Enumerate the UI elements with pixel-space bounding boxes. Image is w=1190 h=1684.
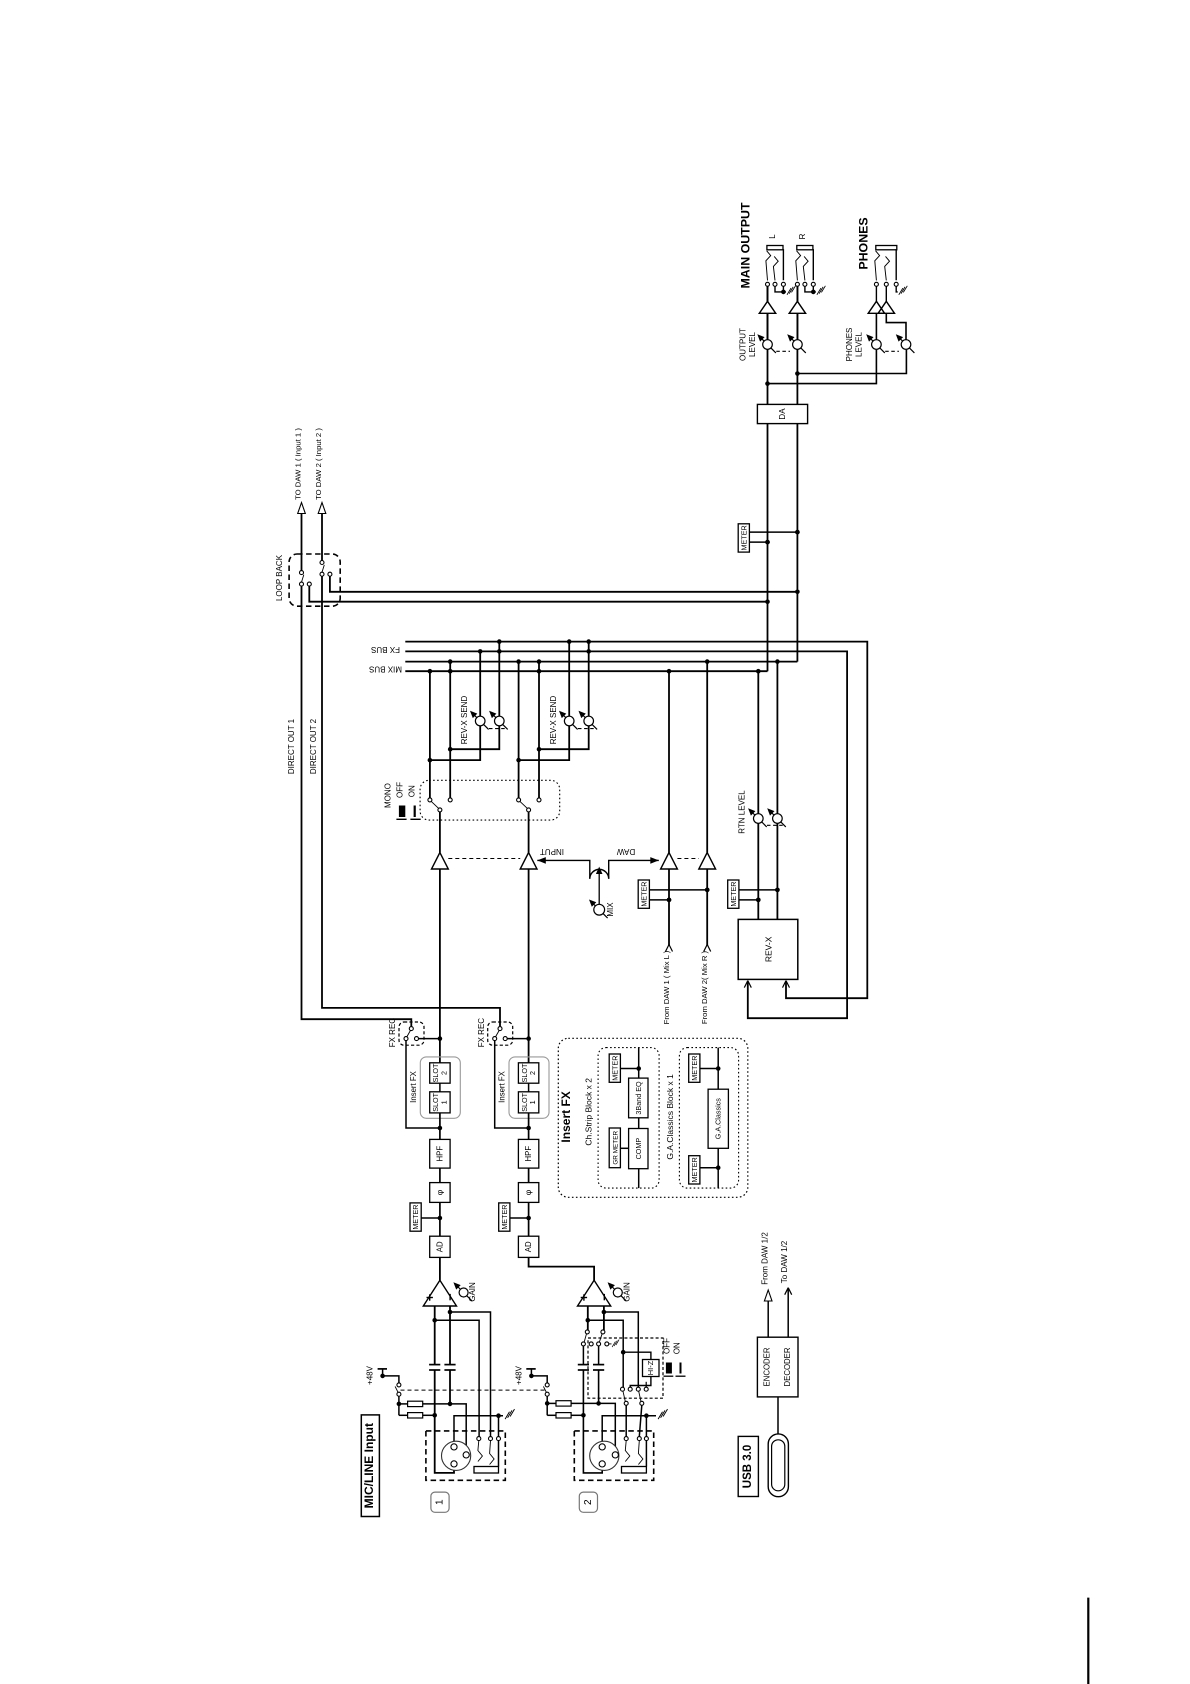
wire ch2 + cap line (582, 1346, 584, 1364)
switch +48V ch2 (531, 1376, 547, 1383)
jack ring spring (803, 256, 808, 280)
jack sleeve wire (812, 250, 814, 280)
wire ch2 + cap to xlr pin3 route (583, 1370, 602, 1473)
wire ch2 sleeve drop (645, 1416, 647, 1437)
jack sleeve wire (895, 250, 898, 280)
wire ch2 tip to jack (625, 1405, 627, 1436)
wire MIX bus R line (top) (405, 661, 797, 663)
block phase ch1 (430, 1183, 450, 1203)
wire FX REC ch2 common to pre-insert (495, 1041, 529, 1128)
wire ch2 slot1 to hpf (528, 1113, 530, 1140)
svg-text:FX REC: FX REC (477, 1018, 486, 1048)
op-amp GAIN ch2 (578, 1280, 611, 1306)
op-amp phones R (878, 301, 894, 313)
label MIC/LINE Input (361, 1415, 379, 1517)
svg-text:FX BUS: FX BUS (371, 645, 400, 654)
svg-text:TO DAW 1 ( Input 1 ): TO DAW 1 ( Input 1 ) (293, 428, 302, 500)
wire ch1 tip tap (435, 1320, 479, 1436)
op-amp main L (759, 301, 775, 313)
meter REV-X returns (739, 889, 778, 891)
svg-text:LEVEL: LEVEL (855, 331, 864, 356)
svg-text:USB 3.0: USB 3.0 (742, 1445, 754, 1488)
switch HI-Z + line (585, 1330, 589, 1334)
block REV-X (738, 919, 798, 979)
svg-text:1: 1 (435, 1499, 446, 1505)
wire gang dashed RTN LEVEL (767, 824, 785, 826)
wire ch2 ring to jack (639, 1405, 642, 1436)
wire ch1 + line to cap (434, 1306, 436, 1364)
footer rule (1087, 1598, 1089, 1684)
wire TRS ch1 sleeve (498, 1441, 500, 1467)
wire DAW R to mix bus (706, 662, 708, 853)
resistor ch2 phantom upper (547, 1402, 556, 1404)
wire main R knob to amp (796, 313, 798, 340)
knob GAIN ch1 (457, 1286, 472, 1301)
jack ring spring (885, 256, 890, 280)
svg-text:METER: METER (729, 882, 738, 907)
wire HI-Z output (630, 1377, 651, 1388)
svg-text:INPUT: INPUT (540, 847, 564, 856)
wire phones knob a to amp (875, 314, 877, 340)
box HI-Z dashed (588, 1338, 663, 1398)
bar TRS ch2 sleeve (622, 1467, 647, 1474)
wire ch2 ground rail (602, 1416, 656, 1444)
wire ch1 REV-X send R branch (450, 642, 499, 750)
wire chstrip chain (638, 1048, 640, 1079)
ground HI-Z off contact (609, 1343, 612, 1345)
meter main outputs (749, 531, 797, 533)
wire To DAW 1/2 line (787, 1289, 789, 1338)
svg-text:COMP: COMP (634, 1138, 643, 1160)
label USB 3.0 (738, 1436, 758, 1496)
jack sleeve wire (782, 250, 784, 280)
meter channel ch1 (421, 1217, 440, 1219)
op-amp GAIN ch1 (423, 1280, 456, 1306)
svg-text:LOOP BACK: LOOP BACK (275, 554, 284, 601)
arrow TO DAW 1 (298, 503, 306, 514)
svg-text:GR METER: GR METER (612, 1131, 619, 1165)
wire phones knob b up-over to amp (886, 314, 906, 340)
wire encoder to USB port (777, 1397, 779, 1434)
jack bar (876, 246, 897, 250)
wire gang dashed +48V switches (401, 1389, 546, 1391)
wire TO DAW 2 line above loopback (321, 514, 323, 561)
block AD ch2 (518, 1236, 538, 1257)
wire ch1 hpf to phase (439, 1168, 441, 1183)
jack tip spring (875, 251, 880, 281)
jack bar (797, 246, 813, 250)
block HI-Z (643, 1360, 660, 1377)
knob RTN LEVEL a (751, 812, 766, 827)
wire TRS ch2 sleeve (645, 1441, 647, 1467)
op-amp DAW R (699, 853, 716, 870)
wire ch2 ring open stub (645, 1382, 647, 1387)
block SLOT 2 ch1 (430, 1063, 450, 1083)
wire ch2 + line (587, 1306, 589, 1330)
switch FX REC ch1 (399, 1022, 424, 1045)
wire ch2 REV-X send R branch (539, 642, 589, 750)
wire ch1 - cap to xlr pin2 route (449, 1370, 451, 1404)
svg-text:DIRECT OUT 2: DIRECT OUT 2 (309, 718, 318, 774)
meter GR METER (620, 1147, 628, 1149)
wire DIRECT OUT 2 (ch2 to DAW2) (322, 576, 500, 1026)
wire ch2 - cap line (598, 1346, 600, 1364)
wire gac chain (717, 1048, 719, 1090)
wire ch1 - line to cap (449, 1306, 451, 1364)
wire From DAW 2 line (706, 869, 708, 946)
knob PHONES LEVEL b (899, 338, 914, 353)
box Insert FX group ch2 (509, 1057, 549, 1118)
label input 2 (579, 1492, 597, 1512)
svg-text:DA: DA (778, 408, 787, 420)
wire gang dashed REV-X SEND ch1 (489, 728, 507, 730)
icon MONO switch state (399, 806, 405, 818)
wire jack sleeve to ground (812, 286, 814, 292)
wire jack ring to ground (805, 286, 813, 292)
op-amp main R (789, 301, 805, 313)
jack bar (767, 246, 783, 250)
wire TO DAW 1 line above loopback (301, 514, 303, 571)
block COMP (629, 1129, 648, 1169)
wire ch2 AD to gain amp (jog) (529, 1257, 595, 1280)
svg-text:R: R (798, 233, 807, 239)
wire From DAW 1/2 line (767, 1301, 769, 1337)
svg-text:GAIN: GAIN (468, 1282, 477, 1302)
capacitor ch2 + (578, 1364, 589, 1366)
block SLOT 1 ch2 (518, 1092, 538, 1113)
wire RTN R line (776, 662, 778, 920)
svg-text:METER: METER (690, 1157, 699, 1182)
svg-text:DAW: DAW (616, 847, 635, 856)
spring TRS ch2 tip (625, 1441, 630, 1462)
jack ring spring (773, 256, 778, 280)
knob RTN LEVEL b (770, 812, 785, 827)
wire ch2 mix left column (518, 662, 520, 798)
wire FX bus L line (405, 651, 847, 1018)
box MIC/LINE input 2 dashed (574, 1431, 653, 1480)
svg-text:MONO: MONO (383, 783, 392, 808)
connector USB port (768, 1434, 788, 1497)
svg-text:METER: METER (500, 1205, 509, 1230)
wire main L knob to amp (767, 313, 769, 340)
wire ch1 slot1 to hpf (439, 1113, 441, 1140)
wire phones jack grounds (896, 286, 898, 292)
box LOOP BACK dashed (289, 554, 340, 606)
wire ch2 mix right column (mono both) (538, 662, 540, 798)
wire ch1 - to xlr pin2 (450, 1404, 466, 1451)
wire ch2 REV-X send L branch (519, 642, 570, 761)
jack contacts (766, 282, 770, 286)
connector TRS ch2 contacts (624, 1437, 628, 1441)
knob REV-X SEND ch1 a (473, 714, 488, 729)
block HPF ch1 (430, 1139, 450, 1168)
svg-text:From DAW 1 ( Mix L ): From DAW 1 ( Mix L ) (662, 950, 671, 1024)
arrow From DAW 1/2 (764, 1290, 772, 1301)
svg-text:AD: AD (435, 1241, 444, 1252)
svg-text:Insert FX: Insert FX (559, 1091, 573, 1142)
svg-text:FX REC: FX REC (388, 1018, 397, 1048)
wire ch2 ring tap (604, 1312, 638, 1387)
svg-text:To DAW 1/2: To DAW 1/2 (780, 1240, 789, 1283)
switch MONO ch2 (517, 798, 521, 802)
svg-text:L: L (768, 234, 777, 239)
wire FX REC ch1 to chain post (419, 1038, 440, 1040)
svg-text:G.A.Classics Block x 1: G.A.Classics Block x 1 (665, 1074, 675, 1160)
svg-text:METER: METER (739, 525, 748, 550)
svg-text:METER: METER (690, 1056, 699, 1081)
wire loopback return 1 (309, 586, 767, 602)
capacitor ch1 - (444, 1364, 455, 1366)
wire L amp to jack (767, 286, 769, 301)
wire ch1 AD to gain amp (439, 1257, 441, 1280)
wire gang dashed phones level (885, 350, 899, 352)
svg-text:ENCODER: ENCODER (763, 1347, 772, 1386)
wire loopback return 2 (330, 576, 798, 592)
op-amp input ch2 (520, 853, 537, 870)
spring TRS ch2 ring (638, 1441, 643, 1465)
connector XLR ch1 (442, 1441, 471, 1470)
svg-text:φ: φ (523, 1189, 533, 1195)
svg-text:ON: ON (408, 785, 417, 797)
wire R amp to jack (796, 286, 798, 301)
svg-text:GAIN: GAIN (622, 1282, 631, 1302)
svg-text:2: 2 (583, 1499, 594, 1505)
box MIC/LINE input 1 dashed (426, 1431, 505, 1480)
switch +48V ch1 (383, 1376, 399, 1383)
svg-text:HPF: HPF (524, 1146, 533, 1162)
block phase ch2 (518, 1183, 538, 1203)
box Insert FX legend outer (558, 1038, 748, 1197)
switch loopback 1 (300, 571, 304, 575)
svg-text:DECODER: DECODER (783, 1347, 792, 1386)
block HPF ch2 (518, 1139, 538, 1168)
svg-text:RTN LEVEL: RTN LEVEL (738, 790, 747, 834)
wire phones ring to amp (885, 286, 887, 301)
wire ch1 mix right column (mono both) (449, 662, 451, 798)
wire ch2 tip tap (588, 1320, 623, 1387)
connector TRS ch1 contacts (477, 1437, 481, 1441)
block SLOT 2 ch2 (518, 1063, 538, 1083)
svg-text:REV-X SEND: REV-X SEND (460, 696, 469, 745)
switch HI-Z - line (601, 1330, 605, 1334)
svg-text:OUTPUT: OUTPUT (738, 328, 747, 361)
svg-text:METER: METER (411, 1205, 420, 1230)
box Insert FX group ch1 (420, 1057, 460, 1118)
wire DAW L to mix bus (668, 671, 670, 852)
svg-text:MIC/LINE Input: MIC/LINE Input (362, 1423, 376, 1508)
svg-text:3Band EQ: 3Band EQ (634, 1081, 643, 1115)
svg-text:+48V: +48V (514, 1365, 523, 1385)
wire ch1 input amp to chain (439, 869, 441, 1063)
icon HI-Z switch state (666, 1363, 672, 1374)
svg-text:ON: ON (672, 1342, 681, 1354)
svg-text:Ch.Strip Block x 2: Ch.Strip Block x 2 (584, 1078, 594, 1146)
svg-text:LEVEL: LEVEL (748, 331, 757, 356)
wire ch2 mono common to input amp (528, 812, 530, 853)
svg-text:HPF: HPF (435, 1146, 444, 1162)
jack tip spring (796, 251, 801, 281)
wire ch1 sleeve drop (498, 1416, 500, 1437)
svg-text:METER: METER (610, 1056, 619, 1081)
svg-text:TO DAW 2 ( Input 2 ): TO DAW 2 ( Input 2 ) (314, 428, 323, 500)
wire ch2 phase to AD (528, 1202, 530, 1236)
knob MIX (592, 903, 607, 918)
wire ch2 - cap down (598, 1370, 600, 1403)
jack contacts (874, 282, 878, 286)
svg-text:From DAW 1/2: From DAW 1/2 (761, 1232, 770, 1285)
wire FX REC ch1 common to pre-insert (406, 1041, 440, 1128)
knob PHONES LEVEL a (869, 338, 884, 353)
svg-text:DIRECT OUT 1: DIRECT OUT 1 (287, 718, 296, 774)
block SLOT 1 ch1 (430, 1092, 450, 1113)
resistor ch1 phantom upper (399, 1403, 408, 1405)
switch loopback 2 (320, 561, 324, 565)
svg-text:REV-X SEND: REV-X SEND (549, 696, 558, 745)
arrow From DAW 1 (666, 945, 670, 952)
wire MIX bus L line (405, 670, 767, 672)
switch ch2 tip select (621, 1387, 625, 1391)
label input 1 (431, 1492, 449, 1512)
meter gac top (700, 1068, 718, 1070)
knob OUTPUT LEVEL R (790, 338, 805, 353)
wire FX bus R line (top) (405, 642, 867, 999)
svg-text:Insert FX: Insert FX (498, 1070, 507, 1102)
knob GAIN ch2 (611, 1286, 626, 1301)
wire main R line (796, 284, 798, 661)
svg-text:MIX: MIX (606, 902, 615, 917)
op-amp DAW L (661, 853, 678, 870)
wire slots link ch2 (528, 1083, 530, 1092)
arrow REV-X input R (783, 981, 787, 988)
capacitor ch2 - (593, 1364, 604, 1366)
block AD ch1 (430, 1236, 450, 1257)
spring TRS ch1 tip (478, 1441, 483, 1462)
arrow To DAW 1/2 (785, 1288, 789, 1295)
meter chstrip top (620, 1068, 638, 1070)
meter DAW returns (649, 889, 707, 891)
knob REV-X SEND ch2 b (582, 714, 597, 729)
svg-text:φ: φ (435, 1189, 445, 1195)
svg-text:PHONES: PHONES (857, 217, 871, 269)
box MONO dotted (420, 780, 560, 820)
symbol +48V ch2 (526, 1368, 535, 1370)
wire ch1 + cap to xlr pin3 route (435, 1370, 454, 1473)
meter channel ch2 (510, 1217, 529, 1219)
svg-text:METER: METER (639, 882, 648, 907)
wire ch1 mono common to input amp (439, 812, 441, 853)
wire ch1 phase to AD (439, 1202, 441, 1236)
wire MIX knob arrow (598, 873, 600, 905)
connector XLR ch2 (590, 1441, 619, 1470)
box Ch.Strip Block inner (598, 1048, 659, 1189)
wire ch1 mix left column (429, 671, 431, 798)
block ENCODER DECODER (757, 1337, 798, 1397)
wire phones tip to amp (875, 286, 877, 301)
block DA (757, 404, 807, 423)
wire slots link ch1 (439, 1083, 441, 1092)
wire DIRECT OUT 1 (ch1 to DAW1) (302, 586, 412, 1026)
wire FX REC ch2 to chain post (507, 1038, 528, 1040)
wire gang dashed REV-X SEND ch2 (578, 728, 596, 730)
wire phones branch R (797, 350, 906, 374)
svg-text:MAIN OUTPUT: MAIN OUTPUT (739, 202, 753, 288)
wire DAW control line (609, 860, 659, 878)
switch MONO ch1 (428, 798, 432, 802)
capacitor ch1 + (429, 1364, 440, 1366)
svg-text:G.A.Classics: G.A.Classics (714, 1098, 723, 1140)
svg-text:1: 1 (528, 1100, 537, 1104)
wire ch1 REV-X send L branch (430, 651, 480, 760)
wire ch2 hpf to phase (528, 1168, 530, 1183)
knob REV-X SEND ch2 a (562, 714, 577, 729)
op-amp phones L (868, 301, 884, 313)
wire ch1 ring tap (450, 1312, 491, 1437)
wire ch2 input amp to chain (528, 869, 530, 1063)
svg-text:PHONES: PHONES (845, 328, 854, 362)
switch FX REC ch2 (488, 1022, 513, 1045)
arrow From DAW 2 (704, 945, 708, 952)
wire From DAW 1 line (668, 869, 670, 946)
knob REV-X SEND ch1 b (492, 714, 507, 729)
wire jack sleeve to ground (782, 286, 784, 292)
wire gang dashed output level (776, 350, 790, 352)
wire INPUT control line (537, 860, 590, 878)
symbol +48V ch1 (378, 1368, 387, 1370)
spring TRS ch1 ring (490, 1441, 495, 1465)
resistor ch2 phantom lower (547, 1414, 556, 1416)
block G.A.Classics (708, 1089, 728, 1148)
switch ch2 ring select (636, 1387, 640, 1391)
arc MIX crossfade (590, 869, 609, 878)
svg-text:OFF: OFF (663, 1338, 672, 1354)
wire HI-Z input (623, 1352, 651, 1359)
wire gang dashed DAW amps (677, 858, 698, 860)
jack contacts (795, 282, 799, 286)
wire ch2 - line (603, 1306, 605, 1330)
svg-text:2: 2 (528, 1071, 537, 1075)
arrow TO DAW 2 (318, 503, 326, 514)
wire phones branch L (768, 350, 877, 384)
wire main L line (767, 284, 769, 671)
svg-text:2: 2 (439, 1071, 448, 1075)
op-amp input ch1 (432, 853, 449, 870)
ground ch2 rail (658, 1412, 662, 1419)
svg-text:HI-Z: HI-Z (646, 1360, 655, 1375)
jack tip spring (766, 251, 771, 281)
meter gac bottom (700, 1167, 718, 1169)
block 3Band EQ (629, 1078, 648, 1118)
svg-text:From DAW 2( Mix R ): From DAW 2( Mix R ) (700, 950, 709, 1024)
svg-text:OFF: OFF (396, 782, 405, 798)
arrow REV-X input L (744, 981, 748, 988)
bar TRS ch1 sleeve (474, 1467, 499, 1474)
wire RTN L line (757, 671, 759, 919)
wire ch1 ground rail (454, 1416, 503, 1444)
resistor ch1 phantom lower (399, 1414, 408, 1416)
svg-text:REV-X: REV-X (764, 936, 774, 962)
svg-text:+48V: +48V (366, 1365, 375, 1385)
wire gang dashed input amps (448, 858, 520, 860)
wire jack ring to ground (775, 286, 783, 292)
svg-text:AD: AD (524, 1241, 533, 1252)
svg-text:Insert FX: Insert FX (409, 1070, 418, 1102)
ground ch1 rail (505, 1412, 509, 1419)
wire ch2 - to xlr pin2 (599, 1403, 616, 1451)
knob OUTPUT LEVEL L (761, 338, 776, 353)
box G.A.Classics Block inner (679, 1048, 738, 1189)
svg-text:1: 1 (439, 1100, 448, 1104)
svg-text:MIX BUS: MIX BUS (369, 665, 402, 674)
